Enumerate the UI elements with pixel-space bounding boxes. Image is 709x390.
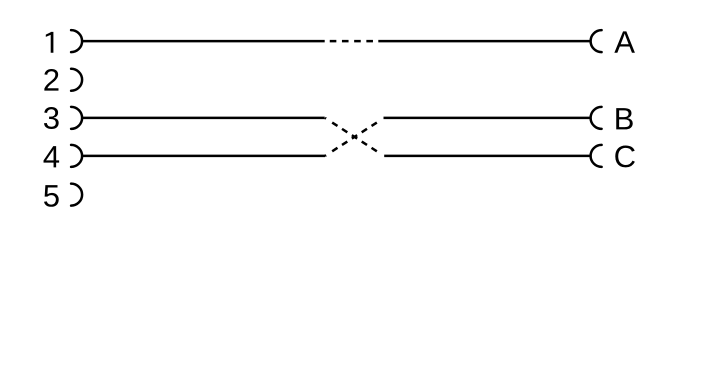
wire pin1 left segment — [82, 40, 325, 43]
wire pin4 left segment — [82, 155, 325, 158]
wire pin1 dashed middle segment — [325, 40, 379, 43]
terminal A connector arc — [591, 30, 602, 52]
wire pin3 left segment — [82, 117, 325, 120]
pin 2 connector arc — [71, 69, 82, 91]
pin 5 connector arc — [71, 184, 82, 206]
terminal C label — [615, 145, 635, 167]
pin 2 label — [44, 69, 58, 91]
terminal B label — [616, 108, 632, 129]
wire B right segment — [384, 117, 591, 120]
crossover dashed wire pin4-to-B — [325, 118, 384, 156]
pin 5 label — [44, 185, 59, 207]
wire C right segment — [384, 155, 591, 158]
pin 3 connector arc — [71, 107, 82, 129]
crossover dashed wire pin3-to-C — [325, 118, 384, 156]
pin 3 label — [44, 107, 59, 129]
pin 1 connector arc — [71, 30, 82, 52]
wire pin1 right segment — [378, 40, 590, 43]
pin 4 label — [44, 146, 60, 167]
pin 4 connector arc — [71, 145, 82, 167]
terminal B connector arc — [591, 107, 602, 129]
terminal C connector arc — [591, 145, 602, 167]
pin 1 label — [46, 32, 54, 53]
terminal A label — [614, 31, 635, 52]
